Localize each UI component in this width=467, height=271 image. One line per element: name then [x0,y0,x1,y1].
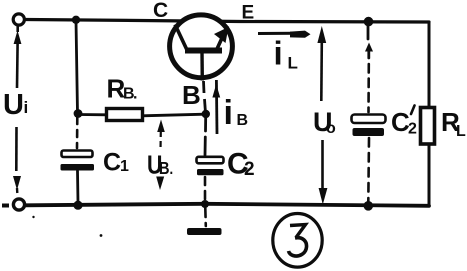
svg-text:2: 2 [244,159,255,180]
svg-text:i: i [274,35,283,72]
svg-text:.: . [170,161,174,178]
svg-text:1: 1 [120,158,129,175]
svg-text:L: L [288,54,298,73]
svg-text:C: C [153,0,168,22]
svg-text:B: B [159,159,170,179]
svg-text:i: i [24,98,29,117]
svg-text:i: i [224,94,233,132]
svg-text:E: E [242,3,255,24]
svg-text:C: C [103,149,121,177]
svg-text:.: . [133,86,137,103]
svg-text:B: B [182,80,201,110]
svg-text:U: U [3,89,24,121]
svg-text:o: o [326,120,336,137]
svg-text:2: 2 [408,121,417,138]
svg-text:L: L [456,123,466,140]
svg-text:B: B [237,112,249,129]
